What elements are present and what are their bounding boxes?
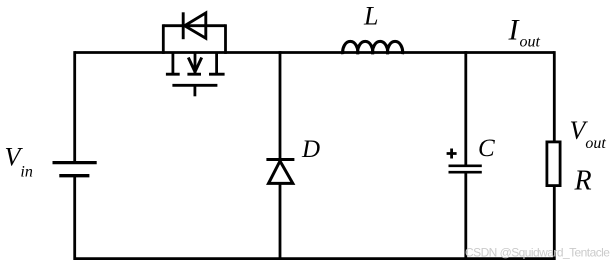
transistor Q1 body-diode triangle: [185, 13, 206, 38]
transistor Q1 source arrow shaft: [194, 53, 197, 74]
capacitor C plus sign: [447, 149, 457, 159]
wire bottom rail: [75, 257, 555, 260]
capacitor C top plate: [449, 164, 482, 167]
transistor Q1 gate lead: [193, 85, 196, 96]
battery V_in positive plate: [53, 161, 97, 164]
transistor Q1 gate plate: [172, 84, 217, 87]
resistor R body: [547, 142, 560, 186]
svg-text:Vin: Vin: [5, 142, 33, 180]
battery V_in negative plate: [59, 174, 89, 177]
wire diode branch lower: [279, 183, 282, 260]
svg-text:R: R: [574, 166, 592, 197]
wire right branch lower: [553, 186, 556, 260]
svg-text:C: C: [478, 135, 495, 162]
wire capacitor branch upper: [464, 51, 467, 166]
wire right branch upper: [553, 51, 556, 142]
transistor Q1 body-diode right riser wire: [224, 24, 227, 54]
inductor L: [343, 41, 403, 54]
transistor Q1 source contact bar: [209, 73, 225, 76]
transistor Q1 source arrow head: [188, 58, 201, 72]
wire capacitor branch lower: [464, 172, 467, 260]
wire diode branch upper: [279, 51, 282, 160]
wire left branch upper (Vin top lead): [73, 51, 76, 163]
svg-text:Iout: Iout: [508, 14, 541, 51]
diode D triangle: [269, 161, 293, 183]
transistor Q1 body-diode top wire: [163, 24, 225, 27]
svg-text:CSDN @Squidward_Tentacle: CSDN @Squidward_Tentacle: [465, 246, 610, 260]
transistor Q1 body-diode left riser wire: [162, 24, 165, 54]
wire left branch lower (Vin bottom lead): [73, 176, 76, 260]
svg-text:Vout: Vout: [570, 116, 607, 152]
transistor Q1 drain stub: [171, 53, 174, 74]
svg-text:D: D: [301, 136, 320, 163]
transistor Q1 body-diode cathode bar: [182, 12, 185, 39]
transistor Q1 drain contact bar: [166, 73, 180, 76]
transistor Q1 body contact bar: [187, 73, 201, 76]
diode D cathode bar: [266, 158, 294, 161]
transistor Q1 source stub: [215, 53, 218, 74]
svg-text:L: L: [363, 1, 378, 30]
capacitor C bottom plate: [449, 171, 482, 174]
wire top rail: [75, 51, 555, 54]
